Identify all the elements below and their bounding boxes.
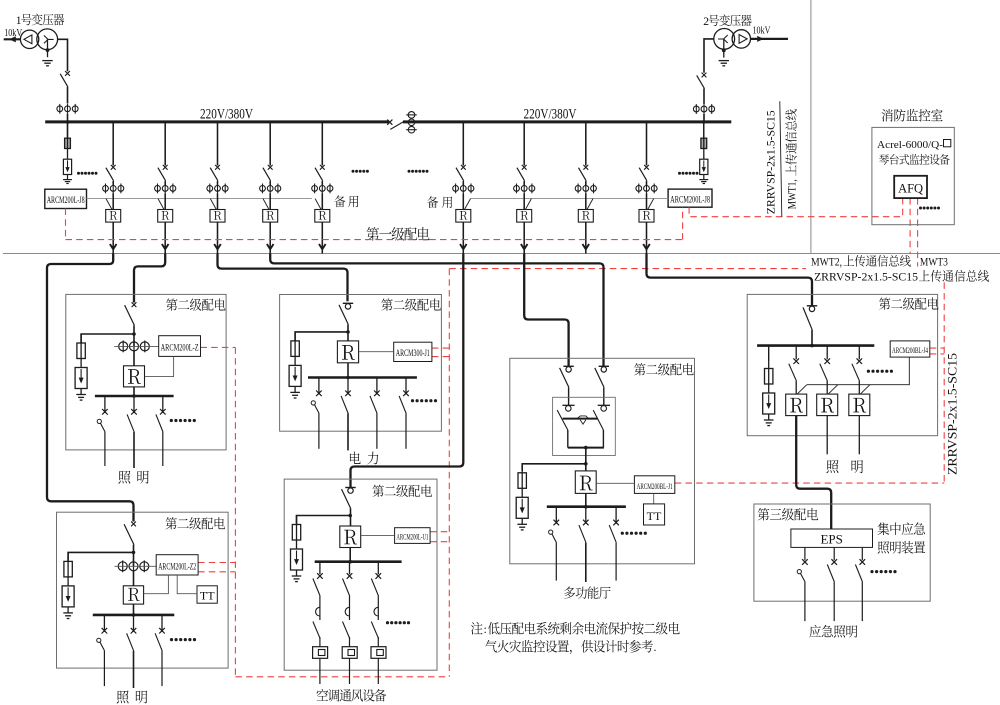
wire: [462, 193, 464, 209]
circuit breaker: [803, 306, 817, 330]
circuit breaker: [595, 366, 609, 387]
wire: [462, 181, 464, 186]
circuit breaker: [263, 165, 273, 181]
outgoing wires: [826, 416, 828, 455]
wire feeder4 to box5 right: [270, 254, 603, 367]
wire: [585, 181, 587, 186]
wire: [703, 89, 705, 105]
wire: RS485 bus right: [470, 198, 668, 200]
wire: [269, 249, 271, 253]
circuit breaker: [339, 303, 353, 324]
label 2号变压器: [709, 14, 752, 26]
red comm dashed: MWT3 riser: [943, 282, 945, 483]
RS485 drop: [587, 199, 593, 210]
wire: [164, 181, 166, 186]
outgoing breaker: [827, 547, 837, 621]
meter R: [337, 341, 358, 363]
wire: [321, 193, 323, 209]
wire: [321, 181, 323, 186]
wire: [585, 493, 587, 506]
meter R: [517, 210, 532, 223]
outgoing breaker: [855, 547, 865, 621]
busbar: [547, 505, 626, 508]
svg-text:10kV: 10kV: [753, 25, 771, 36]
arrow: [110, 244, 117, 249]
outgoing breaker: [311, 378, 322, 414]
ARCM200L-Z device box: [159, 336, 201, 357]
svg-text:ARCM200L-Z2: ARCM200L-Z2: [158, 562, 196, 572]
wire: [347, 363, 349, 378]
wire: [462, 222, 464, 249]
wire: [523, 222, 525, 249]
wire: [347, 324, 349, 341]
circuit breaker: [125, 302, 137, 325]
RS485 ARCM to R: [144, 575, 169, 594]
arrow: [460, 244, 467, 249]
fuse: [65, 122, 71, 149]
arrow: [162, 244, 169, 249]
transformer T1: [20, 29, 57, 50]
meter R: [639, 210, 654, 223]
circuit breaker: [124, 522, 136, 545]
ARCM200L-Z2 device box: [156, 555, 198, 575]
ground: [63, 175, 72, 184]
circuit breaker: [106, 165, 116, 181]
wire: [164, 193, 166, 209]
red comm dashed: center riser: [448, 269, 450, 677]
RS485 drop: [106, 199, 112, 210]
fuse: [765, 360, 773, 385]
wire: [217, 181, 219, 186]
RS485 drop: [465, 199, 471, 210]
surge arrester: [289, 356, 301, 386]
outgoing breaker: [97, 396, 107, 432]
svg-text:ARCM200BL-J4: ARCM200BL-J4: [892, 345, 928, 355]
RS485 line to ARCM: [115, 565, 157, 567]
busbar: [308, 376, 417, 379]
feeder at x=322: [321, 122, 323, 166]
red comm dashed: right ARCM stub: [682, 207, 684, 239]
surge arrester: [75, 359, 87, 389]
label 消防监控室: [882, 109, 943, 122]
outgoing wires: [103, 651, 105, 686]
distribution box: 第二级配电 (lighting right): [747, 294, 937, 435]
current transformers CT: [119, 341, 150, 353]
wire: long horizontal separator line: [3, 253, 1000, 255]
svg-text:ARCM200L-U1: ARCM200L-U1: [396, 532, 428, 542]
junction: [702, 120, 706, 124]
meter R: [210, 210, 225, 223]
circuit breaker: [210, 165, 220, 181]
label 第一级配电: [367, 227, 430, 241]
wire feeder1 to box4: [47, 254, 134, 522]
dots: [77, 172, 80, 175]
wire: [217, 222, 219, 249]
busbar: [93, 614, 175, 617]
fuse: [518, 464, 526, 489]
wires into ATS: [568, 387, 570, 405]
AFQ device box: [894, 176, 927, 198]
RS485 drop: [315, 199, 321, 210]
svg-text:AFQ: AFQ: [898, 181, 923, 195]
wire: [350, 509, 352, 527]
wire: [349, 548, 351, 562]
wire: [112, 249, 114, 253]
surge arrester: [700, 149, 708, 175]
note text: [471, 622, 483, 635]
junction: [66, 120, 70, 124]
red comm dashed: to AFQ: [689, 198, 903, 217]
wire: [269, 193, 271, 209]
T2 neutral to ground: [722, 39, 726, 58]
red comm dashed: BL-J4 stubs: [930, 347, 944, 349]
circuit breaker: [517, 165, 527, 181]
current transformers CT: [636, 184, 657, 194]
busbar 220V/380V right section: [403, 120, 731, 123]
distribution box: 第二级配电 (multifunction hall): [510, 358, 695, 564]
red comm dashed: BL-J1 horizontal: [675, 482, 944, 484]
RS485 ARCM to TT: [653, 493, 655, 504]
meter R: [575, 471, 596, 494]
meter R: [106, 210, 121, 223]
circuit breaker: [342, 488, 356, 509]
RS485 R to ARCM: [359, 351, 394, 353]
red comm dashed: ARCM200L-Z stub: [201, 346, 236, 348]
busbar 220V/380V left section: [45, 120, 389, 123]
svg-text::: :: [484, 622, 487, 636]
motor feeder 3: [371, 562, 386, 684]
label 琴台式监控设备: [879, 154, 950, 165]
wire: [585, 222, 587, 249]
arrow: [583, 244, 590, 249]
wire: [269, 222, 271, 249]
outgoing breaker: [852, 346, 862, 395]
ARCM200BL-J1 device box: [634, 476, 674, 494]
wire: [646, 193, 648, 209]
branch wire: [81, 334, 134, 343]
wire T2 to breaker: [704, 39, 714, 73]
RS485 line to ARCM: [114, 345, 159, 347]
incoming 10kV line with arrow: [4, 37, 21, 42]
meter R: [456, 210, 471, 223]
ground: [76, 389, 86, 401]
meter R: [158, 210, 173, 223]
leader line: [780, 101, 782, 217]
distribution box: 第三级配电: [754, 504, 930, 601]
fuse: [291, 332, 299, 357]
distribution box: 第二级配电 (power): [280, 295, 442, 432]
feeder at x=113: [112, 122, 114, 166]
arrow: [643, 244, 650, 249]
svg-text:1: 1: [16, 15, 22, 27]
RS485 line: [807, 357, 909, 385]
outgoing breaker: [549, 507, 559, 543]
distribution box: 第二级配电 (lighting): [66, 294, 226, 450]
svg-text:ARCM200L-Z: ARCM200L-Z: [161, 344, 199, 354]
current transformers CT: [575, 184, 596, 194]
label 多功能厅: [564, 586, 610, 599]
label ZRRVSP-2x1.5-SC15 vertical: [766, 110, 778, 214]
outgoing breaker: [97, 615, 107, 651]
wire: [112, 181, 114, 186]
circuit breaker: [315, 165, 325, 181]
ARCM200L-J8 device box (right): [668, 189, 712, 207]
RS485 drop: [828, 385, 838, 394]
red comm dashed: ARCM300-J1 stubs: [432, 347, 449, 349]
svg-text:ARCM300-J1: ARCM300-J1: [396, 349, 430, 359]
RS485 drop: [860, 385, 870, 394]
label 第二级配电: [372, 485, 431, 497]
red comm dashed: MWT2 horizontal: [449, 268, 806, 270]
svg-text:ARCM200BL-J1: ARCM200BL-J1: [637, 481, 673, 491]
label 第三级配电: [758, 508, 818, 521]
wire: [67, 114, 69, 123]
arrow: [319, 244, 326, 249]
outgoing breaker: [399, 378, 409, 414]
current transformers CT: [453, 184, 474, 194]
wire: [133, 545, 135, 566]
dots: [870, 570, 873, 573]
label 照明: [826, 460, 838, 473]
wire feeder6 to box3: [351, 254, 464, 488]
current transformers CT: [155, 184, 176, 194]
dots: [408, 170, 411, 173]
outgoing wires: [555, 543, 557, 581]
dots: [678, 172, 681, 175]
label 第二级配电: [634, 363, 693, 375]
ARCM300-J1 device box: [394, 342, 432, 361]
EPS box: [791, 529, 873, 547]
label ZRRVSP-2x1.5-SC15 vertical right: [946, 353, 960, 475]
current transformers CT: [118, 560, 149, 572]
wire: [269, 181, 271, 186]
label 第二级配电: [381, 298, 440, 310]
outgoing breaker: [155, 615, 165, 651]
meter R: [786, 394, 807, 416]
wire: [133, 351, 135, 366]
label 备用: [427, 196, 438, 208]
svg-text:MWT2,: MWT2,: [811, 257, 842, 269]
RS485 drop: [263, 199, 269, 210]
wire: [67, 122, 69, 138]
label 1号变压器: [21, 14, 64, 26]
outgoing breaker: [609, 507, 619, 543]
outgoing breaker: [820, 346, 830, 395]
svg-text:Acrel-6000/Q-: Acrel-6000/Q-: [877, 139, 943, 151]
ground: [517, 518, 527, 530]
ground: [719, 61, 729, 66]
svg-text:TT: TT: [200, 589, 215, 603]
RS485 R to ARCM: [145, 356, 174, 376]
svg-text:2: 2: [703, 16, 709, 28]
wire: [133, 387, 135, 396]
red comm dashed: main horizontal: [66, 239, 683, 241]
bus tie isolator circles: [406, 112, 417, 133]
svg-text:TT: TT: [647, 509, 662, 523]
dots: [170, 419, 173, 422]
current transformers CT: [260, 184, 281, 194]
red comm dashed: left ARCM stub: [65, 209, 67, 240]
outgoing wires: [104, 432, 106, 466]
current transformers CT: [514, 184, 535, 194]
svg-text:EPS: EPS: [820, 531, 842, 546]
wire: [133, 325, 135, 346]
wire: [321, 249, 323, 253]
svg-text:MWT1,: MWT1,: [787, 179, 799, 209]
TT box: [644, 504, 665, 525]
dots: [621, 532, 624, 535]
wire: [646, 249, 648, 253]
svg-text:ZRRVSP-2x1.5-SC15: ZRRVSP-2x1.5-SC15: [766, 110, 778, 214]
wire T1 to breaker: [58, 39, 68, 71]
ground: [42, 61, 52, 66]
svg-text:ARCM200L-J8: ARCM200L-J8: [47, 196, 85, 206]
wire: [133, 571, 135, 586]
ground: [699, 175, 708, 184]
dots: [867, 370, 870, 373]
busbar: [315, 560, 402, 563]
ATS automatic transfer switch: [553, 397, 616, 455]
outgoing breaker: [579, 507, 589, 543]
wire: [703, 122, 705, 138]
meter R: [123, 586, 143, 604]
branch wire: [295, 332, 348, 341]
T1 neutral to ground: [46, 39, 50, 57]
circuit breaker: [639, 165, 649, 181]
RS485 R to ARCM: [361, 535, 395, 537]
bus tie breaker: [387, 120, 403, 130]
motor feeder 2: [342, 562, 357, 684]
label 第二级配电: [879, 297, 938, 309]
RS485 drop: [525, 199, 531, 210]
wire: [133, 604, 135, 615]
dots: [352, 170, 355, 173]
wire: vertical border line: [810, 0, 812, 254]
dots: [411, 399, 414, 402]
branch wire: [68, 552, 133, 561]
fire monitoring room box: [872, 127, 954, 224]
meter R: [340, 526, 361, 548]
fuse: [701, 122, 707, 149]
wire: [217, 193, 219, 209]
wire box6 R1 to EPS: [796, 416, 831, 529]
label 照明: [117, 691, 129, 704]
label 集中应急: [878, 522, 925, 535]
wire: [585, 249, 587, 253]
wire: [811, 330, 813, 346]
outgoing breaker: [789, 346, 799, 395]
branch to arrester: [768, 346, 770, 361]
ground: [292, 570, 302, 582]
fuse: [77, 334, 85, 359]
feeder at x=165: [164, 122, 166, 166]
TT box: [197, 586, 217, 603]
svg-text:220V/380V: 220V/380V: [200, 107, 253, 123]
wire: [646, 181, 648, 186]
wire: [164, 249, 166, 253]
wire feeder2 to box1: [134, 254, 165, 303]
feeder at x=524: [523, 122, 525, 166]
wire: [217, 249, 219, 253]
arrow: [521, 244, 528, 249]
surge arrester: [516, 488, 528, 518]
svg-text:ZRRVSP-2x1.5-SC15: ZRRVSP-2x1.5-SC15: [814, 270, 918, 283]
outgoing 10kV line with arrow: [751, 37, 788, 42]
wire: [585, 193, 587, 209]
label 照明: [118, 471, 130, 484]
dots: [919, 207, 922, 210]
arrow: [214, 244, 221, 249]
fuse: [64, 552, 72, 577]
branch wire: [522, 464, 586, 471]
arrow: [267, 244, 274, 249]
wire: [585, 448, 587, 471]
outgoing breaker: [127, 396, 137, 432]
distribution box: 第二级配电 (HVAC): [284, 479, 437, 670]
meter R: [263, 210, 278, 223]
RS485 drop: [797, 385, 807, 394]
busbar: [757, 344, 874, 347]
current transformers CT: [207, 184, 228, 194]
svg-text:ZRRVSP-2x1.5-SC15: ZRRVSP-2x1.5-SC15: [946, 353, 960, 475]
label MWT1,上传通信总线 vertical: [787, 179, 799, 209]
wire feeder9 to box6: [647, 254, 813, 306]
surge arrester: [62, 577, 74, 607]
outgoing breaker: [341, 378, 351, 414]
label 照明装置: [878, 541, 926, 554]
wire: [112, 222, 114, 249]
wire: [523, 181, 525, 186]
wire: [462, 249, 464, 253]
label 备用: [334, 195, 345, 207]
svg-text:ARCM200L-J8: ARCM200L-J8: [670, 196, 710, 206]
circuit breaker: [560, 366, 574, 387]
surge arrester: [763, 384, 775, 414]
feeder at x=218: [217, 122, 219, 166]
meter R: [315, 210, 330, 223]
circuit breaker: [158, 165, 168, 181]
current transformers CT: [57, 104, 78, 114]
ARCM200L-J8 device box: [45, 189, 87, 208]
circuit breaker: [697, 73, 707, 89]
red comm dashed: ARCM200L-U1 stubs: [430, 531, 449, 533]
RS485 R to ARCM: [596, 482, 634, 484]
fuse: [292, 516, 300, 541]
red comm dashed: AFQ stub2: [909, 198, 911, 253]
label 应急照明: [809, 625, 857, 638]
svg-text:.: .: [654, 640, 657, 654]
svg-text:220V/380V: 220V/380V: [524, 107, 577, 123]
label 空调通风设备: [317, 689, 387, 702]
feeder at x=463: [462, 122, 464, 166]
dots: [386, 621, 389, 624]
busbar: [95, 395, 174, 398]
feeder at x=270: [269, 122, 271, 166]
RS485 drop: [648, 199, 654, 210]
feeder at x=646: [646, 122, 648, 166]
meter R: [124, 366, 145, 387]
wire feeder7 to box5 left: [524, 254, 568, 367]
red comm dashed: bottom horizontal: [235, 676, 449, 678]
circuit breaker: [456, 165, 466, 181]
wire: [164, 222, 166, 249]
dots: [170, 638, 173, 641]
RS485 drop: [210, 199, 216, 210]
outgoing breaker: [797, 547, 808, 621]
distribution box: 第二级配电 (lighting 2): [57, 512, 229, 668]
wire: [112, 193, 114, 209]
circuit breaker: [579, 165, 589, 181]
